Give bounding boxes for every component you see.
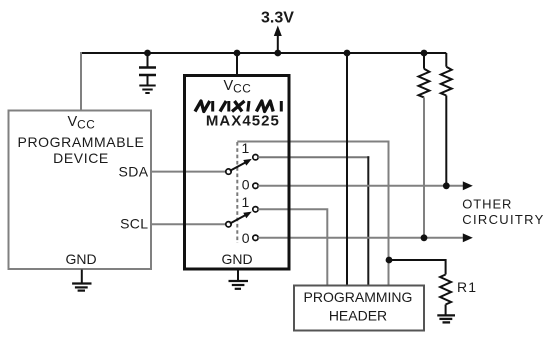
pin label VCC (programmable device) <box>68 114 96 132</box>
svg-text:SDA: SDA <box>119 164 149 180</box>
wire: SCL to switch 2 common <box>151 223 226 225</box>
MAXIM logo <box>195 101 281 112</box>
ground symbol below MAX4525 <box>229 269 249 289</box>
wire: SW1 throw 1 to programming header <box>258 156 369 285</box>
wire: SW1 throw 0 to other circuitry (upper) <box>258 185 463 187</box>
label OTHER CIRCUITRY <box>462 196 544 227</box>
switch SW1 arrow <box>230 159 252 171</box>
svg-text:SCL: SCL <box>120 216 148 232</box>
power arrow up to 3.3V <box>274 26 282 54</box>
junction: left pull-up on lower other line <box>421 234 428 241</box>
junction: rail at header power drop <box>344 50 351 57</box>
control linkage dashed line <box>236 142 238 243</box>
wire: SDA to switch 1 common <box>151 171 226 173</box>
wire: power drop from rail to header <box>346 53 348 285</box>
programmable device box U2 <box>9 111 152 270</box>
label R1 <box>457 279 477 295</box>
svg-text:3.3V: 3.3V <box>261 9 294 26</box>
svg-text:GND: GND <box>65 251 96 267</box>
svg-text:VCC: VCC <box>224 78 252 96</box>
resistor R1 <box>440 275 451 316</box>
svg-text:1: 1 <box>242 194 250 210</box>
pin label SDA <box>119 164 149 180</box>
resistor R3 (right pull-up) <box>441 53 452 186</box>
ground symbol below programmable device <box>72 270 91 291</box>
label MAX4525 <box>206 113 280 130</box>
junction: rail at capacitor <box>144 50 151 57</box>
wire: SW2 throw 0 to other circuitry (lower) <box>258 237 463 239</box>
junction: control line at R1 branch <box>386 257 393 264</box>
node 3.3V supply label <box>261 9 294 26</box>
IC U1 MAX4525 box <box>185 76 290 270</box>
switch SW2 arrow <box>230 212 252 224</box>
arrowhead upper other circuitry <box>463 181 473 190</box>
svg-text:0: 0 <box>242 177 250 193</box>
ground symbol at R1 <box>437 315 455 322</box>
programming header box J1 <box>294 286 424 331</box>
arrowhead lower other circuitry <box>463 233 473 242</box>
wire: MAX4525 VCC drop from rail <box>236 53 238 76</box>
junction: rail at MAX4525 VCC <box>234 50 241 57</box>
junction: right pull-up on upper other line <box>443 182 450 189</box>
pin label SCL <box>120 216 148 232</box>
switch SW1 label 1 <box>242 140 250 156</box>
svg-text:PROGRAMMABLE: PROGRAMMABLE <box>18 134 145 150</box>
svg-text:OTHER: OTHER <box>462 196 512 211</box>
switch SW2 (SCL) <box>226 207 258 241</box>
junction: rail at 3.3V arrow <box>274 50 281 57</box>
switch SW2 label 1 <box>242 194 250 210</box>
pin label GND (MAX4525) <box>221 251 252 267</box>
ground symbol at capacitor <box>139 86 155 94</box>
svg-text:GND: GND <box>221 251 252 267</box>
svg-text:PROGRAMMING: PROGRAMMING <box>304 289 413 305</box>
junction: rail at left pullup resistor <box>421 50 428 57</box>
label PROGRAMMABLE DEVICE <box>18 134 145 166</box>
label PROGRAMMING HEADER <box>304 289 413 324</box>
svg-text:DEVICE: DEVICE <box>53 150 109 166</box>
switch SW2 label 0 <box>242 230 250 246</box>
capacitor C1 (bypass) <box>139 53 156 85</box>
svg-text:HEADER: HEADER <box>329 308 387 324</box>
pin label GND (programmable device) <box>65 251 96 267</box>
switch SW1 (SDA) <box>226 155 258 189</box>
wire: VCC drop to programmable device <box>80 52 82 110</box>
wire: SW2 throw 1 to programming header <box>258 209 327 285</box>
switch SW1 label 0 <box>242 177 250 193</box>
svg-text:R1: R1 <box>457 279 477 295</box>
wire: top power rail <box>81 52 446 54</box>
wire: branch to R1 <box>389 260 446 275</box>
svg-text:CIRCUITRY: CIRCUITRY <box>462 212 544 227</box>
svg-text:MAX4525: MAX4525 <box>206 113 280 130</box>
resistor R2 (left pull-up) <box>419 53 430 238</box>
wire: switch control line from linkage to header <box>237 142 388 286</box>
svg-text:0: 0 <box>242 230 250 246</box>
svg-text:VCC: VCC <box>68 114 96 132</box>
pin label VCC (MAX4525) <box>224 78 252 96</box>
